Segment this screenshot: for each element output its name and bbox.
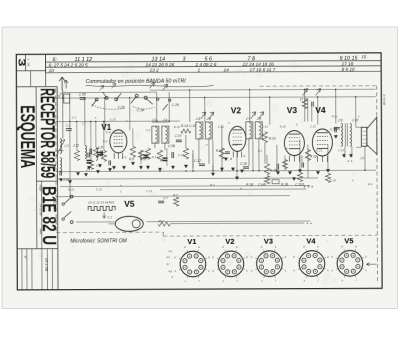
svg-text:J.4: J.4 [163, 118, 167, 122]
svg-text:10-1-58: 10-1-58 [45, 258, 50, 272]
svg-text:45.7: 45.7 [158, 219, 164, 223]
svg-text:C.07: C.07 [175, 134, 182, 138]
svg-text:R.4: R.4 [368, 182, 373, 186]
svg-text:C.3: C.3 [66, 124, 71, 128]
svg-text:Hoja: Hoja [38, 185, 42, 192]
svg-text:R.15: R.15 [270, 169, 277, 173]
svg-text:10 11 12 13 14 R22: 10 11 12 13 14 R22 [88, 200, 114, 204]
svg-text:C.0B: C.0B [168, 144, 176, 148]
svg-text:V3: V3 [264, 237, 273, 246]
svg-text:J.6: J.6 [207, 117, 211, 121]
svg-text:V5: V5 [124, 199, 135, 209]
svg-text:V2: V2 [225, 237, 234, 246]
svg-text:V3: V3 [287, 105, 298, 115]
svg-text:C.19: C.19 [338, 148, 344, 152]
svg-text:14: 14 [224, 67, 230, 72]
svg-text:R.7: R.7 [173, 193, 178, 197]
svg-text:8 9 10: 8 9 10 [342, 67, 355, 72]
svg-text:14-11-58: 14-11-58 [38, 204, 42, 216]
svg-text:2-TV-58: 2-TV-58 [382, 93, 386, 105]
svg-text:C.HB: C.HB [258, 183, 267, 187]
svg-text:R.10: R.10 [174, 125, 180, 129]
svg-text:C.8: C.8 [98, 145, 103, 149]
svg-text:+ + +: + + + [303, 184, 314, 189]
svg-text:C.12: C.12 [218, 125, 224, 129]
svg-text:V2: V2 [231, 105, 242, 115]
svg-text:3.f: 3.f [166, 262, 169, 266]
svg-text:J.5: J.5 [196, 117, 200, 121]
svg-text:C.25: C.25 [110, 117, 116, 121]
svg-text:R.1B: R.1B [281, 183, 289, 187]
svg-text:13 2: 13 2 [150, 68, 160, 73]
svg-text:1: 1 [198, 68, 201, 73]
svg-text:J.11: J.11 [64, 144, 70, 148]
svg-text:V5: V5 [344, 236, 353, 245]
svg-text:R.21: R.21 [332, 114, 338, 118]
svg-text:R.18: R.18 [280, 125, 286, 129]
svg-text:J.9: J.9 [337, 118, 343, 122]
svg-text:R.16: R.16 [269, 137, 276, 141]
svg-text:C.2B: C.2B [137, 108, 145, 112]
svg-text:10: 10 [49, 68, 55, 73]
svg-text:C.7: C.7 [163, 196, 168, 200]
svg-text:1.a: 1.a [168, 249, 172, 253]
svg-text:C.22: C.22 [96, 187, 102, 191]
svg-text:12 24 14 18 26: 12 24 14 18 26 [243, 62, 275, 67]
svg-text:C.13: C.13 [232, 143, 238, 147]
svg-text:R.20: R.20 [68, 188, 74, 192]
svg-text:C.06: C.06 [79, 92, 86, 96]
svg-text:R.12: R.12 [152, 155, 158, 159]
svg-text:V4: V4 [315, 105, 326, 115]
svg-text:J.8: J.8 [257, 117, 261, 121]
svg-text:C.5: C.5 [72, 116, 77, 120]
svg-text:15: 15 [361, 54, 366, 59]
svg-text:J.: J. [358, 114, 360, 118]
svg-text:R.20/1: R.20/1 [52, 201, 56, 210]
svg-text:4.g: 4.g [168, 269, 172, 273]
svg-text:C.23: C.23 [146, 189, 152, 193]
svg-text:J.10: J.10 [351, 118, 359, 122]
svg-text:C.20: C.20 [330, 178, 336, 182]
svg-text:J.10: J.10 [63, 178, 69, 182]
svg-text:R.8: R.8 [103, 139, 108, 143]
svg-text:+: + [243, 154, 246, 159]
svg-text:R.3: R.3 [210, 183, 215, 187]
svg-text:17 18: 17 18 [342, 61, 354, 66]
svg-text:R.19: R.19 [310, 154, 317, 158]
svg-text:C.14: C.14 [262, 125, 268, 129]
svg-text:3: 3 [183, 56, 186, 62]
svg-text:Rev.: Rev. [39, 229, 43, 235]
svg-text:Microfonici: SONITRI OM: Microfonici: SONITRI OM [70, 238, 127, 244]
svg-text:C.0: C.0 [146, 128, 151, 132]
svg-text:14 21 26 9 26: 14 21 26 9 26 [146, 62, 175, 67]
svg-text:R.23: R.23 [316, 148, 322, 152]
svg-text:C.15: C.15 [310, 124, 316, 128]
svg-text:J.3: J.3 [152, 118, 156, 122]
svg-text:6: 27 5 24 2 6 20 5: 6: 27 5 24 2 6 20 5 [49, 62, 89, 67]
svg-text:C.16: C.16 [178, 153, 184, 157]
svg-text:C.2: C.2 [107, 215, 112, 219]
svg-text:17 1B: 17 1B [300, 98, 309, 102]
svg-text:R.9: R.9 [129, 157, 134, 161]
svg-text:R.2: R.2 [258, 149, 263, 153]
svg-text:3: 3 [15, 58, 26, 67]
svg-text:C.17: C.17 [194, 159, 201, 163]
svg-text:+ +: + + [347, 158, 353, 163]
svg-text:J.7: J.7 [246, 117, 250, 121]
svg-text:ESQUEMA: ESQUEMA [16, 105, 38, 168]
svg-text:C.26: C.26 [118, 105, 125, 109]
svg-text:Commutador en posición BANDA: Commutador en posición BANDA 50 mTRl [86, 79, 187, 85]
svg-text:2.b: 2.b [165, 255, 170, 259]
svg-text:R.1B: R.1B [246, 183, 254, 187]
svg-text:V4: V4 [306, 236, 316, 245]
svg-text:1 4 09 2 6: 1 4 09 2 6 [196, 62, 217, 67]
svg-text:C.9: C.9 [122, 155, 127, 159]
svg-text:+ +: + + [306, 221, 312, 226]
svg-text:J.12: J.12 [73, 144, 79, 148]
svg-text:C.26: C.26 [172, 103, 179, 107]
svg-text:20: 20 [51, 166, 56, 170]
svg-text:V1: V1 [187, 237, 196, 246]
